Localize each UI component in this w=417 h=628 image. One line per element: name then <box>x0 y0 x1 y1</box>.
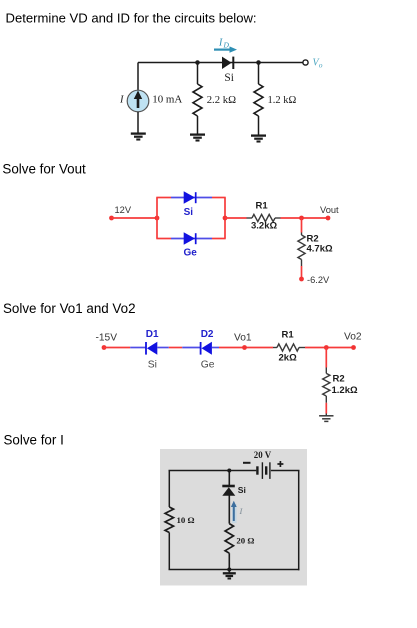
scanned figure background panel <box>160 449 307 586</box>
label I (source) <box>119 95 124 106</box>
wire top diode leads blue <box>171 197 212 199</box>
svg-text:I: I <box>119 95 124 106</box>
label 10 mA <box>152 94 182 106</box>
svg-text:Ge: Ge <box>184 247 198 258</box>
current arrow ID <box>214 46 237 52</box>
wire resistor 20 to bottom <box>228 553 230 569</box>
node bottom middle junction <box>227 568 231 572</box>
node B junction dot right <box>256 60 261 65</box>
svg-text:R2: R2 <box>333 373 345 384</box>
wire current source to top bus <box>137 63 139 91</box>
wire R2 to -6.2V <box>301 266 303 279</box>
wire bridge bottom edge red segments <box>156 238 225 240</box>
wire bridge top edge red segments <box>156 197 225 199</box>
label 1.2kOhm <box>332 385 358 396</box>
wire junction down to R2 <box>301 218 303 233</box>
node Vo1 dot <box>242 345 247 350</box>
svg-text:-15V: -15V <box>96 333 118 344</box>
svg-text:Vout: Vout <box>320 205 339 215</box>
wire top right segment <box>271 470 300 472</box>
label 2.2 kOhm <box>207 94 236 106</box>
node Vo2 terminal dot <box>351 345 356 350</box>
label Vo2 <box>344 331 362 342</box>
node Vout terminal dot <box>326 216 331 221</box>
resistor R2 4.7k <box>298 233 305 267</box>
ground (2.2k) <box>190 135 205 141</box>
node -15V terminal dot <box>102 345 107 350</box>
label R1 <box>256 200 269 211</box>
svg-text:1.2 kΩ: 1.2 kΩ <box>268 95 297 106</box>
svg-text:2.2 kΩ: 2.2 kΩ <box>207 94 236 106</box>
diode D1 Si <box>146 342 157 355</box>
label Vo <box>313 58 323 70</box>
ground circuit3 <box>319 416 333 422</box>
wire R1 to Vout <box>281 217 329 219</box>
label 2kOhm <box>279 353 298 364</box>
wire bridge right edge <box>224 198 226 239</box>
ground (1.2k) <box>251 136 266 142</box>
svg-text:D: D <box>223 41 230 50</box>
svg-text:4.7kΩ: 4.7kΩ <box>307 244 333 255</box>
svg-text:Vo2: Vo2 <box>344 331 362 342</box>
wire node A to resistor 2.2k <box>197 63 199 85</box>
wire -15V to D1 <box>104 347 131 349</box>
svg-text:Solve for I: Solve for I <box>4 433 64 448</box>
label plus battery <box>277 461 283 467</box>
label Ge (D2) <box>201 360 215 371</box>
wire resistor 1.2k to ground <box>258 116 260 135</box>
wire left branch bottom <box>168 533 170 570</box>
wire bridge left edge <box>156 198 158 239</box>
wire top bus circuit1 <box>138 62 305 64</box>
svg-text:12V: 12V <box>115 205 132 215</box>
label ID <box>218 38 230 50</box>
ground (current source) <box>131 134 146 140</box>
svg-text:D1: D1 <box>146 329 159 340</box>
diode D Si circuit1 <box>222 57 233 69</box>
node A junction dot left <box>195 60 200 65</box>
label -6.2V <box>307 275 330 285</box>
svg-text:Ge: Ge <box>201 360 215 371</box>
label I circuit4 <box>239 506 244 516</box>
node output junction <box>299 216 304 221</box>
label 12V <box>115 205 132 215</box>
svg-text:Determine VD and ID for the ci: Determine VD and ID for the circuits bel… <box>6 10 257 25</box>
wire D2 to R1 red <box>219 347 273 349</box>
svg-text:20 V: 20 V <box>254 450 272 460</box>
battery 20V <box>257 462 270 479</box>
wire left branch top <box>168 471 170 508</box>
resistor R1 2k <box>273 344 305 351</box>
wire D2 right lead blue <box>212 347 219 349</box>
svg-text:Solve for Vout: Solve for Vout <box>2 161 86 176</box>
wire 12V to bridge <box>112 217 158 219</box>
wire diode to resistor 20 <box>228 496 230 524</box>
node -6.2V terminal dot <box>299 277 304 282</box>
svg-text:D2: D2 <box>201 329 214 340</box>
label Si (top branch) <box>184 207 194 218</box>
wire right branch <box>298 471 300 571</box>
wire node B to resistor 1.2k <box>258 63 260 85</box>
output terminal Vo <box>303 60 308 65</box>
label R2 (1.2k) <box>333 373 345 384</box>
wire resistor 2.2k to ground <box>197 116 199 134</box>
label Si (D1) <box>148 360 157 371</box>
label Ge (bottom branch) <box>184 247 198 258</box>
ground circuit4 <box>223 570 236 579</box>
node 12V terminal dot <box>109 216 114 221</box>
node R2 junction dot <box>324 345 329 350</box>
wire node to diode <box>228 471 230 487</box>
wire between diodes red <box>169 347 182 349</box>
resistor 1.2 kOhm <box>254 84 263 116</box>
resistor R2 1.2k <box>323 368 330 403</box>
resistor 10 Ohm <box>165 507 173 533</box>
diode Si circuit4 <box>222 486 235 496</box>
label Si circuit4 <box>238 485 246 495</box>
label Vout <box>320 205 339 215</box>
label 10 Ohm <box>177 515 195 525</box>
svg-text:Vo1: Vo1 <box>234 332 252 343</box>
diode Si (top branch) <box>184 191 196 203</box>
wire R1 to Vo2 <box>305 347 354 349</box>
wire junction down red <box>325 348 327 368</box>
diode D2 Ge <box>201 342 212 355</box>
wire top left segment <box>169 470 257 472</box>
label 4.7kOhm <box>307 244 333 255</box>
node top middle junction <box>227 469 231 473</box>
resistor R1 3.2k <box>247 214 281 221</box>
wire bottom diode leads blue <box>171 238 212 240</box>
svg-text:20 Ω: 20 Ω <box>236 535 254 545</box>
wire D1 left lead blue <box>130 347 146 349</box>
label 20 Ohm <box>236 535 254 545</box>
svg-text:Si: Si <box>148 360 157 371</box>
svg-text:Solve for Vo1 and Vo2: Solve for Vo1 and Vo2 <box>3 301 136 316</box>
node bridge right junction <box>223 216 228 221</box>
svg-text:2kΩ: 2kΩ <box>279 353 298 364</box>
resistor 20 Ohm <box>225 524 233 554</box>
label minus battery <box>243 462 251 464</box>
svg-text:10 mA: 10 mA <box>152 94 182 106</box>
diode Ge (bottom branch) <box>184 232 196 244</box>
label 20 V <box>254 450 272 460</box>
label 1.2 kOhm <box>268 95 297 106</box>
svg-text:R1: R1 <box>282 330 295 341</box>
wire bottom rail <box>169 569 300 571</box>
svg-text:-6.2V: -6.2V <box>307 275 330 285</box>
resistor 2.2 kOhm <box>193 84 202 116</box>
label -15V <box>96 333 118 344</box>
wire current source to ground <box>137 112 139 134</box>
svg-text:10 Ω: 10 Ω <box>177 515 195 525</box>
wire D1 right lead blue <box>157 347 169 349</box>
current source I 10mA <box>127 90 149 112</box>
current arrow I circuit4 <box>231 501 237 523</box>
wire D2 left lead blue <box>182 347 200 349</box>
label Si circuit1 <box>224 72 234 84</box>
svg-text:Si: Si <box>224 72 234 84</box>
svg-text:o: o <box>319 60 323 69</box>
svg-text:I: I <box>218 38 223 49</box>
svg-text:R1: R1 <box>256 200 269 211</box>
label Vo1 <box>234 332 252 343</box>
svg-text:3.2kΩ: 3.2kΩ <box>251 221 277 232</box>
label D1 <box>146 329 159 340</box>
label R2 (4.7k) <box>307 233 319 244</box>
svg-text:Si: Si <box>238 485 246 495</box>
wire R2 to ground red <box>325 403 327 416</box>
svg-text:Si: Si <box>184 207 194 218</box>
label R1 (2k) <box>282 330 295 341</box>
label D2 <box>201 329 214 340</box>
svg-text:1.2kΩ: 1.2kΩ <box>332 385 358 396</box>
wire bridge to R1 <box>225 217 247 219</box>
label 3.2kOhm <box>251 221 277 232</box>
node bridge left junction <box>155 216 160 221</box>
